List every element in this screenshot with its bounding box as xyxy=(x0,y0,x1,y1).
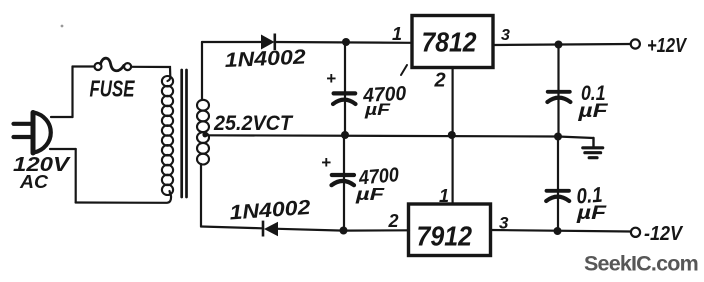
svg-text:3: 3 xyxy=(501,27,510,44)
svg-text:1: 1 xyxy=(392,24,402,44)
svg-text:SeekIC.com: SeekIC.com xyxy=(584,252,698,276)
svg-text:FUSE: FUSE xyxy=(90,76,135,102)
svg-text:+: + xyxy=(321,153,331,172)
svg-text:AC: AC xyxy=(19,172,49,192)
svg-text:1N4002: 1N4002 xyxy=(224,45,307,72)
svg-text:7912: 7912 xyxy=(417,221,473,252)
svg-text:3: 3 xyxy=(499,214,509,233)
svg-text:µF: µF xyxy=(355,184,386,204)
svg-text:2: 2 xyxy=(434,70,446,92)
svg-text:µF: µF xyxy=(577,101,609,122)
svg-text:µF: µF xyxy=(576,203,608,224)
svg-text:µF: µF xyxy=(364,100,391,119)
svg-text:7812: 7812 xyxy=(422,27,477,58)
svg-text:1N4002: 1N4002 xyxy=(229,196,312,225)
svg-text:+12V: +12V xyxy=(647,34,688,57)
svg-text:+: + xyxy=(326,69,336,88)
svg-text:25.2VCT: 25.2VCT xyxy=(213,111,294,135)
svg-text:2: 2 xyxy=(388,211,399,231)
svg-text:-12V: -12V xyxy=(644,222,684,245)
svg-text:1: 1 xyxy=(439,186,449,206)
